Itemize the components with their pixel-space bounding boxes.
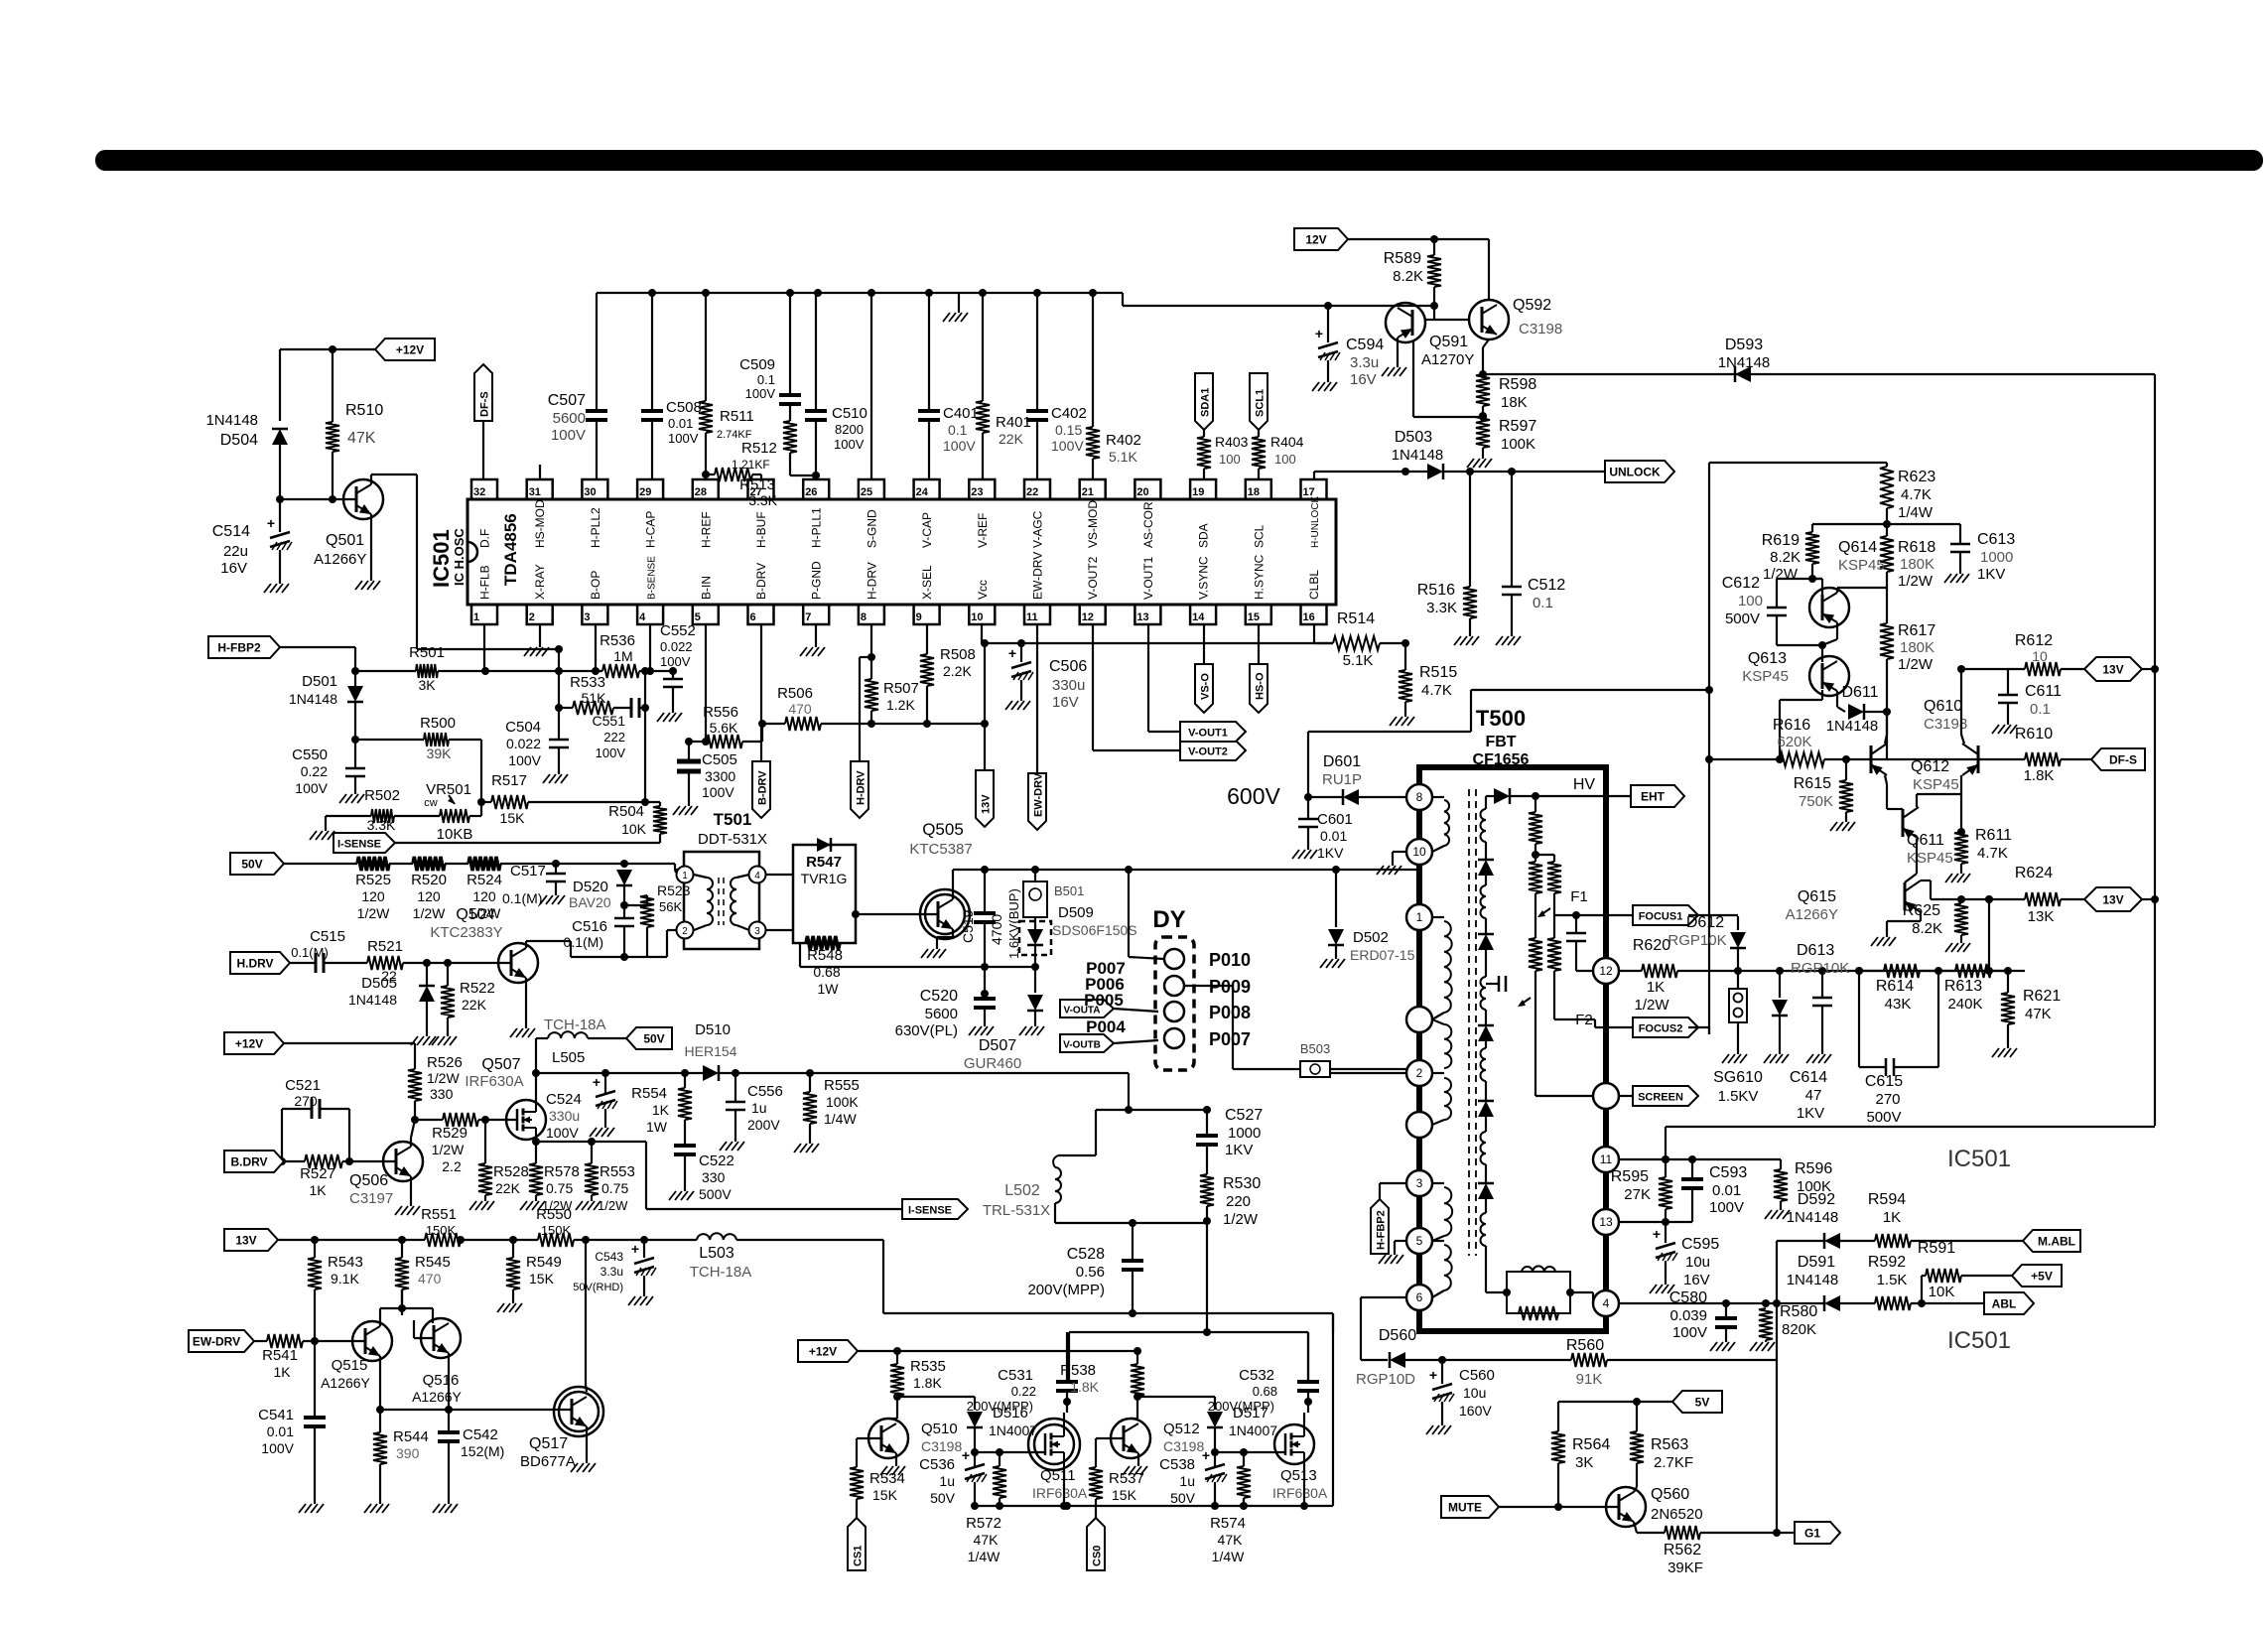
svg-text:H-CAP: H-CAP <box>644 511 658 548</box>
svg-text:R554: R554 <box>631 1085 667 1102</box>
svg-text:C505: C505 <box>702 751 737 768</box>
resistor R501 <box>355 644 489 693</box>
svg-text:2: 2 <box>1416 1066 1423 1080</box>
svg-text:25: 25 <box>861 486 872 498</box>
svg-text:120: 120 <box>417 888 441 904</box>
capacitor C556 <box>720 1073 783 1151</box>
svg-text:V-AGC: V-AGC <box>1031 510 1045 548</box>
svg-text:R535: R535 <box>910 1358 946 1375</box>
svg-text:500V: 500V <box>1725 610 1760 627</box>
svg-text:R574: R574 <box>1210 1515 1246 1532</box>
FBT terminal 12 <box>1593 958 1619 984</box>
resistor R614 <box>1855 964 1942 1013</box>
IC501 pin 24 (V-CAP) <box>914 479 940 548</box>
svg-text:15K: 15K <box>872 1487 898 1503</box>
svg-text:C550: C550 <box>292 746 328 763</box>
wire Q611 collector <box>1917 775 1961 832</box>
svg-text:1/2W: 1/2W <box>1763 566 1799 583</box>
svg-text:13V: 13V <box>2102 663 2123 677</box>
svg-text:3.3u: 3.3u <box>1350 354 1379 371</box>
svg-text:R537: R537 <box>1109 1470 1144 1487</box>
flag +12V <box>375 339 435 360</box>
svg-text:R612: R612 <box>2015 632 2053 649</box>
svg-text:RU1P: RU1P <box>1322 771 1362 788</box>
svg-text:P005: P005 <box>1084 991 1124 1010</box>
svg-text:C613: C613 <box>1977 531 2015 548</box>
varistor R547 box <box>793 845 856 943</box>
svg-text:Q507: Q507 <box>481 1056 520 1073</box>
resistor R616 <box>1705 717 1871 766</box>
svg-text:R533: R533 <box>570 674 605 691</box>
svg-text:R538: R538 <box>1060 1362 1096 1379</box>
svg-text:120: 120 <box>361 888 385 904</box>
wire H-FBP2 node <box>280 647 359 686</box>
resistor R520 (power) <box>411 857 447 921</box>
label P004 left <box>1086 1017 1126 1036</box>
wire 600V node <box>1304 686 1713 801</box>
flag V-OUTB <box>1060 1034 1158 1052</box>
svg-text:50V: 50V <box>1170 1490 1196 1506</box>
svg-text:0.1: 0.1 <box>2030 701 2051 718</box>
diode D560 <box>1356 1327 1446 1388</box>
svg-text:D504: D504 <box>220 432 258 449</box>
svg-text:100V: 100V <box>943 438 976 454</box>
svg-text:750K: 750K <box>1799 793 1833 810</box>
wire Q504 collector <box>526 941 624 957</box>
svg-text:Q511: Q511 <box>1040 1467 1076 1484</box>
resistor R589 <box>1384 250 1441 306</box>
svg-text:KTC2383Y: KTC2383Y <box>430 924 502 941</box>
svg-text:22K: 22K <box>999 431 1024 447</box>
svg-text:SDA: SDA <box>1197 523 1211 548</box>
svg-text:330: 330 <box>430 1086 454 1102</box>
resistor R541 <box>262 1334 365 1380</box>
IC501 pin 18 (SCL) <box>1246 479 1271 548</box>
svg-text:V-OUT1: V-OUT1 <box>1141 556 1155 600</box>
FBT terminal 2 <box>1406 1060 1432 1086</box>
diode D612 <box>1668 914 1746 971</box>
svg-text:100V: 100V <box>660 654 691 669</box>
svg-text:C517: C517 <box>510 863 546 880</box>
FBT secondary coils <box>1481 809 1487 1246</box>
svg-text:H.DRV: H.DRV <box>236 957 273 971</box>
capacitor C612 <box>1722 575 1822 645</box>
svg-text:1K: 1K <box>1883 1209 1901 1226</box>
wire HV to EHT <box>1535 795 1631 797</box>
svg-text:C527: C527 <box>1225 1107 1263 1124</box>
svg-text:+: + <box>267 515 275 531</box>
FBT terminal 3 <box>1406 1170 1432 1196</box>
svg-text:SG610: SG610 <box>1713 1069 1763 1086</box>
FBT divider R pair 1 <box>1529 855 1561 915</box>
svg-text:12V: 12V <box>1305 233 1326 247</box>
label IC501 right upper <box>1947 1146 2011 1172</box>
wire Q560 collector <box>1634 1487 1637 1492</box>
IC501 pin 2 (X-RAY) <box>527 564 553 624</box>
svg-text:31: 31 <box>529 486 541 498</box>
svg-text:1.21KF: 1.21KF <box>732 458 770 472</box>
ground C514 <box>264 550 289 593</box>
svg-text:R572: R572 <box>966 1515 1001 1532</box>
resistor R563 <box>1630 1431 1693 1487</box>
FBT terminal 11 <box>1593 1147 1619 1172</box>
svg-text:C614: C614 <box>1790 1069 1827 1086</box>
svg-text:CS1: CS1 <box>853 1546 865 1566</box>
svg-text:A1266Y: A1266Y <box>412 1389 462 1405</box>
resistor R594 <box>1868 1191 2023 1248</box>
wire Q513 source <box>1300 1464 1308 1510</box>
svg-text:2.2: 2.2 <box>442 1158 462 1174</box>
wire Q613 emitter <box>1837 691 1845 712</box>
svg-text:10u: 10u <box>1463 1385 1486 1401</box>
svg-text:C601: C601 <box>1317 811 1353 828</box>
svg-text:Q611: Q611 <box>1907 832 1944 849</box>
FBT terminal 6 <box>1406 1285 1432 1310</box>
resistor R598 <box>1476 374 1536 411</box>
svg-text:5.1K: 5.1K <box>1109 449 1137 465</box>
resistor R618 <box>1880 524 1935 608</box>
svg-text:160V: 160V <box>1459 1403 1492 1419</box>
wire pin8 col <box>867 624 875 679</box>
svg-text:R591: R591 <box>1918 1240 1955 1257</box>
FBT terminal 1 <box>1406 904 1432 930</box>
svg-text:D591: D591 <box>1798 1254 1835 1271</box>
svg-text:R510: R510 <box>345 402 383 419</box>
svg-text:1.5K: 1.5K <box>1877 1272 1908 1288</box>
resistor R536 <box>600 632 677 678</box>
wire Q517 collector <box>586 1240 587 1392</box>
wire I-SENSE run <box>395 842 660 844</box>
wire pin13 to V-OUT1 <box>1148 624 1180 732</box>
svg-text:100K: 100K <box>826 1094 859 1110</box>
wire R521-Q504 <box>427 959 511 967</box>
svg-text:1/2W: 1/2W <box>413 905 446 921</box>
wire Q507 source down <box>535 1140 537 1163</box>
svg-text:C594: C594 <box>1346 337 1384 353</box>
svg-text:P-GND: P-GND <box>810 561 824 600</box>
IC501 part number TDA4856 <box>501 513 520 586</box>
label P005 left <box>1084 991 1124 1010</box>
svg-text:D611: D611 <box>1841 684 1878 701</box>
wire pin5 col <box>702 624 710 745</box>
flag FOCUS1 <box>1633 905 1698 925</box>
svg-text:TVR1G: TVR1G <box>801 871 848 886</box>
FBT terminal 4 <box>1593 1290 1619 1316</box>
svg-text:R620: R620 <box>1633 937 1670 954</box>
svg-text:C3198: C3198 <box>1163 1438 1204 1454</box>
svg-text:EW-DRV: EW-DRV <box>193 1335 240 1349</box>
wire pin16-R514 <box>1314 624 1333 643</box>
wire H-DRV branch <box>860 657 871 761</box>
ground pin7 <box>800 624 825 656</box>
pin31 stub <box>539 465 541 479</box>
wire C521 loop <box>278 1109 353 1165</box>
svg-text:A1266Y: A1266Y <box>1786 906 1838 923</box>
svg-text:620K: 620K <box>1777 734 1811 750</box>
flag B.DRV <box>224 1151 284 1172</box>
svg-text:1W: 1W <box>646 1119 668 1135</box>
svg-text:I-SENSE: I-SENSE <box>908 1205 952 1217</box>
svg-text:R502: R502 <box>364 787 400 804</box>
svg-text:C510: C510 <box>832 405 867 422</box>
svg-text:330u: 330u <box>1052 677 1085 694</box>
capacitor C504 <box>505 719 569 783</box>
wire Q507 drain up <box>532 1038 540 1100</box>
svg-text:H-FBP2: H-FBP2 <box>1376 1210 1388 1250</box>
svg-text:26: 26 <box>805 486 817 498</box>
svg-text:R613: R613 <box>1944 978 1982 995</box>
wire pin14 col <box>1203 624 1205 664</box>
svg-text:L502: L502 <box>1004 1182 1040 1199</box>
svg-text:1/4W: 1/4W <box>824 1111 857 1127</box>
svg-text:5600: 5600 <box>925 1006 958 1022</box>
svg-text:R529: R529 <box>432 1125 467 1142</box>
FBT rectifier diode a <box>1478 842 1494 885</box>
svg-text:0.15: 0.15 <box>1055 422 1082 438</box>
svg-text:R517: R517 <box>491 772 527 789</box>
resistor R555 <box>794 1073 860 1152</box>
transistor Q614 <box>1809 539 1885 627</box>
svg-text:MUTE: MUTE <box>1448 1501 1482 1515</box>
wire I-SENSE2 row <box>646 1208 902 1210</box>
resistor R404 <box>1252 434 1304 479</box>
svg-text:220: 220 <box>1226 1193 1251 1210</box>
svg-text:16V: 16V <box>1683 1272 1710 1288</box>
svg-text:100V: 100V <box>1709 1199 1744 1216</box>
resistor R554 <box>631 1073 692 1146</box>
svg-text:F1: F1 <box>1570 888 1588 905</box>
svg-text:23: 23 <box>971 486 983 498</box>
svg-text:500V: 500V <box>699 1186 732 1202</box>
wire Q612 collector up <box>1885 712 1887 744</box>
capacitor C527 <box>1196 1107 1263 1174</box>
flag H.DRV <box>230 952 290 974</box>
FBT terminal screen <box>1593 1083 1619 1109</box>
svg-text:P010: P010 <box>1209 950 1251 970</box>
svg-text:100V: 100V <box>551 427 586 444</box>
svg-text:AS-COR: AS-COR <box>1141 501 1155 548</box>
resistor R534 <box>850 1467 905 1527</box>
resistor R580 <box>1750 1303 1817 1351</box>
wire G1 junction <box>1777 1360 1795 1533</box>
svg-text:4: 4 <box>639 611 646 623</box>
diode D611 <box>1826 684 1891 735</box>
svg-text:15K: 15K <box>500 810 526 826</box>
capacitor F1 <box>1566 915 1593 971</box>
svg-text:50V(RHD): 50V(RHD) <box>573 1282 623 1293</box>
svg-text:240K: 240K <box>1947 996 1982 1013</box>
svg-text:A1270Y: A1270Y <box>1421 351 1474 368</box>
svg-text:SDS06F150S: SDS06F150S <box>1052 922 1137 938</box>
svg-text:100V: 100V <box>745 386 776 401</box>
wire FBT-6 loop <box>1361 1297 1406 1360</box>
svg-text:DF-S: DF-S <box>479 391 491 417</box>
IC501 pin 13 (V-OUT1) <box>1134 556 1160 624</box>
FBT primary coil 1 <box>1432 917 1452 1019</box>
svg-text:C611: C611 <box>2025 683 2062 700</box>
IC501 pin 32 (D.F) <box>471 479 497 548</box>
svg-text:G1: G1 <box>1804 1527 1820 1541</box>
svg-text:BD677A: BD677A <box>520 1453 576 1470</box>
resistor R612 <box>2008 632 2084 676</box>
ground Q512 emitter <box>1123 1453 1147 1475</box>
FBT rectifier diode e <box>1478 1164 1494 1213</box>
svg-text:T500: T500 <box>1476 706 1526 731</box>
svg-text:R403: R403 <box>1215 434 1249 450</box>
wire FBT-12 to R620 <box>1619 970 1642 972</box>
svg-text:100: 100 <box>1274 452 1296 467</box>
transistor Q612 bare <box>1871 744 1959 793</box>
svg-text:RGP10D: RGP10D <box>1356 1371 1415 1388</box>
capacitor C552 <box>657 622 696 722</box>
svg-text:0.039: 0.039 <box>1669 1307 1707 1324</box>
svg-text:H.SYNC: H.SYNC <box>1252 554 1266 600</box>
svg-text:+: + <box>1653 1226 1661 1242</box>
svg-text:470: 470 <box>788 701 812 717</box>
svg-text:R615: R615 <box>1794 775 1831 792</box>
wire pin10 col <box>981 624 989 770</box>
svg-text:P007: P007 <box>1209 1029 1251 1049</box>
wire pin4 down <box>646 624 654 675</box>
IC501 pin 10 (Vcc) <box>969 580 995 624</box>
svg-text:R592: R592 <box>1868 1254 1906 1271</box>
svg-text:1/2W: 1/2W <box>598 1198 628 1213</box>
resistor R592 <box>1868 1254 1984 1310</box>
diode D593 <box>1718 337 1771 382</box>
transistor Q592 <box>1434 297 1562 339</box>
FBT terminal 8 <box>1406 784 1432 810</box>
svg-text:C536: C536 <box>919 1456 955 1473</box>
svg-text:47K: 47K <box>2025 1006 2052 1022</box>
svg-text:1u: 1u <box>1179 1473 1195 1489</box>
svg-text:13V: 13V <box>235 1234 256 1248</box>
wire FBT-2 to B503 <box>1330 1072 1406 1074</box>
svg-text:0.01: 0.01 <box>267 1423 294 1439</box>
transistor Q510 <box>868 1419 962 1458</box>
transistor Q517 <box>520 1387 603 1470</box>
svg-text:0.22: 0.22 <box>1011 1384 1036 1399</box>
wire Q592 collector top <box>1434 239 1489 300</box>
svg-text:2: 2 <box>682 926 688 937</box>
wire 11 to right bus <box>1662 1127 2155 1163</box>
svg-text:HS-MOD: HS-MOD <box>533 499 547 548</box>
svg-text:C612: C612 <box>1722 575 1760 592</box>
svg-text:D613: D613 <box>1797 942 1834 959</box>
svg-text:B.DRV: B.DRV <box>230 1155 267 1169</box>
svg-text:R543: R543 <box>328 1254 363 1271</box>
svg-text:R617: R617 <box>1898 622 1935 639</box>
svg-text:630V(PL): 630V(PL) <box>895 1022 958 1039</box>
svg-text:Q592: Q592 <box>1513 297 1551 314</box>
resistor R535 <box>890 1351 946 1401</box>
svg-text:10K: 10K <box>1929 1284 1955 1300</box>
svg-text:R550: R550 <box>536 1206 572 1223</box>
svg-text:11: 11 <box>1600 1152 1613 1166</box>
ground stub on bus <box>943 293 968 322</box>
svg-text:29: 29 <box>639 486 651 498</box>
svg-text:0.01: 0.01 <box>1320 828 1347 844</box>
resistor R522 <box>432 963 495 1045</box>
IC501 pin 20 (AS-COR) <box>1134 479 1160 548</box>
svg-text:R623: R623 <box>1898 469 1935 485</box>
resistor R401 <box>976 293 1031 479</box>
svg-text:1/4W: 1/4W <box>968 1549 1001 1564</box>
svg-text:18K: 18K <box>1501 394 1528 411</box>
svg-text:C3198: C3198 <box>921 1438 962 1454</box>
svg-text:22K: 22K <box>495 1180 521 1196</box>
svg-text:D.F: D.F <box>478 529 492 548</box>
wire bottom bus <box>971 1313 1333 1510</box>
ground Q505 emitter <box>921 929 953 958</box>
capacitor C507 <box>548 293 607 479</box>
resistor R619 <box>1762 524 1819 583</box>
svg-text:DDT-531X: DDT-531X <box>698 831 767 848</box>
svg-text:A1266Y: A1266Y <box>314 551 366 568</box>
svg-text:4: 4 <box>1603 1296 1610 1310</box>
svg-text:V-REF: V-REF <box>976 513 990 548</box>
fuse B501 <box>1023 870 1084 923</box>
transistor Q615 bare <box>1786 881 1921 923</box>
wire pin12 to V-OUT2 <box>1093 624 1180 750</box>
svg-text:R516: R516 <box>1417 582 1455 599</box>
wire Q515 collector <box>376 1356 384 1414</box>
resistor R508 <box>920 624 976 728</box>
diode D501 <box>289 673 363 707</box>
capacitor C517 <box>502 863 566 906</box>
resistor R403 <box>1197 434 1249 479</box>
svg-text:R555: R555 <box>824 1077 860 1094</box>
svg-text:600V: 600V <box>1227 783 1280 809</box>
resistor R517 <box>481 772 660 826</box>
flag V-OUTA <box>1060 1000 1158 1017</box>
flag 13V vertical <box>976 770 994 827</box>
svg-text:4.7K: 4.7K <box>1421 682 1452 699</box>
wire MUTE row <box>1499 1503 1619 1511</box>
svg-text:P004: P004 <box>1086 1017 1126 1036</box>
svg-text:100V: 100V <box>546 1125 579 1141</box>
svg-text:C552: C552 <box>660 622 696 639</box>
resistor R527 <box>300 1154 396 1198</box>
svg-text:V-CAP: V-CAP <box>920 512 934 548</box>
IC501 pin 17 (H-UNLOCK) <box>1301 479 1327 548</box>
svg-text:V.SYNC: V.SYNC <box>1197 556 1211 600</box>
svg-text:0.1: 0.1 <box>757 372 775 387</box>
resistor R550 <box>536 1206 697 1247</box>
svg-text:Q591: Q591 <box>1429 334 1468 350</box>
resistor R514 <box>1333 610 1409 669</box>
svg-text:Q513: Q513 <box>1280 1467 1317 1484</box>
capacitor C611 <box>1961 669 2062 734</box>
IC501 pin 29 (H-CAP) <box>637 479 663 548</box>
capacitor C580 <box>1669 1289 1737 1351</box>
svg-text:R524: R524 <box>467 872 502 888</box>
svg-text:R594: R594 <box>1868 1191 1906 1208</box>
wire row 729 <box>871 720 989 728</box>
svg-text:10: 10 <box>2032 648 2048 664</box>
flag +12V mid <box>224 1032 284 1054</box>
svg-text:H-UNLOCK: H-UNLOCK <box>1310 495 1321 548</box>
svg-text:C556: C556 <box>747 1083 783 1100</box>
svg-text:FOCUS2: FOCUS2 <box>1639 1023 1683 1035</box>
svg-text:9.1K: 9.1K <box>331 1271 359 1287</box>
svg-text:Q613: Q613 <box>1748 650 1787 667</box>
svg-text:Q504: Q504 <box>456 906 494 923</box>
diode D509 dashed box <box>1019 904 1137 971</box>
svg-text:R512: R512 <box>741 440 777 457</box>
svg-text:5.1K: 5.1K <box>1343 652 1374 669</box>
FBT coupling capacitor <box>1486 976 1506 992</box>
svg-text:30: 30 <box>584 486 596 498</box>
